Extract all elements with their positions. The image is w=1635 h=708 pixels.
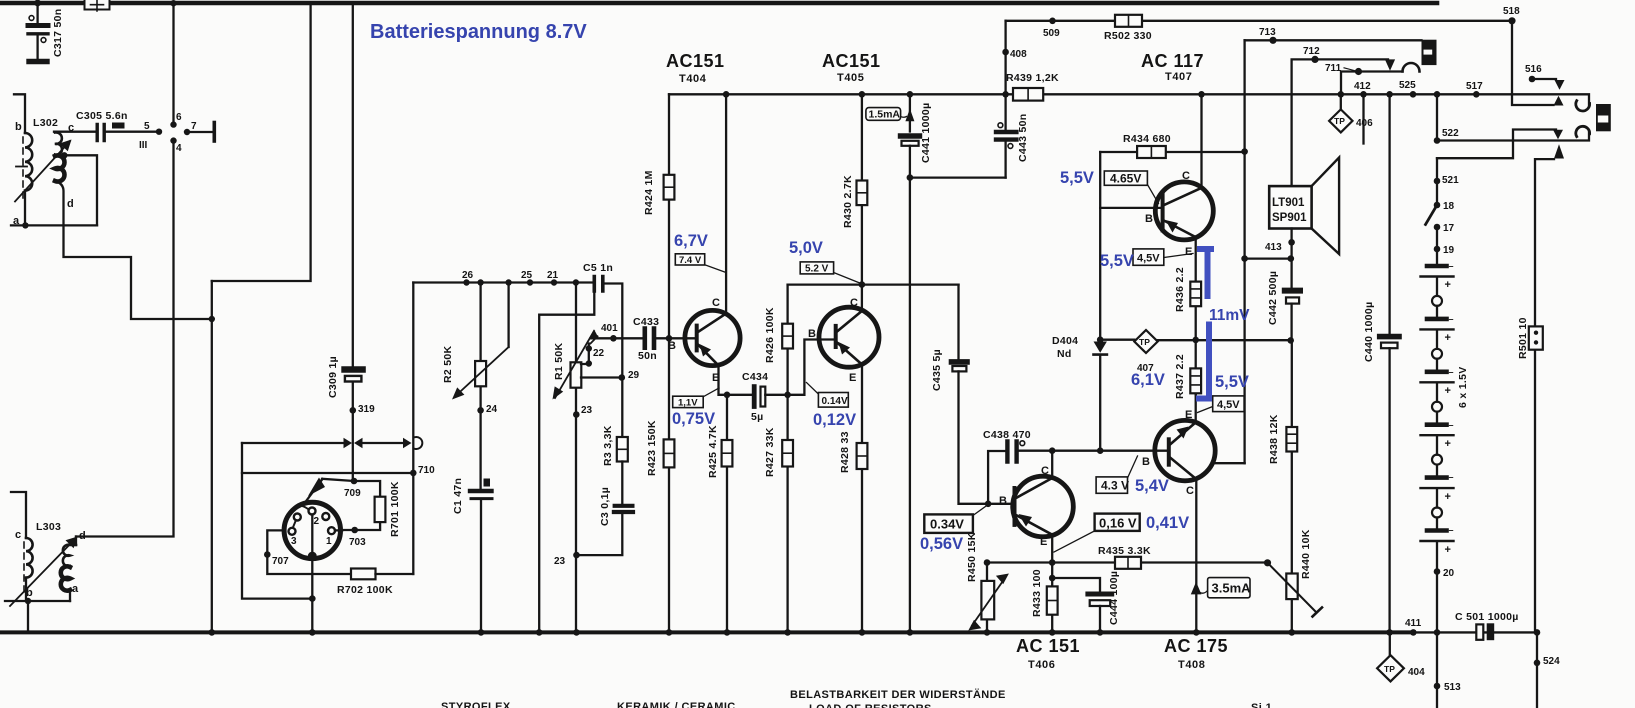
svg-text:c: c — [15, 529, 21, 541]
wire: T408 emitter up to R437 — [1195, 394, 1197, 423]
svg-text:C: C — [1186, 485, 1194, 497]
svg-text:5,5V: 5,5V — [1215, 373, 1249, 391]
wire: 518 vertical to jack contact — [1512, 21, 1554, 105]
svg-text:AC 117: AC 117 — [1141, 51, 1204, 71]
wire: main horizontal rail y=94 — [669, 94, 1589, 106]
contact arrow on R501 arm pointing up — [1554, 144, 1564, 158]
wire: C433 to T404 base — [657, 337, 695, 339]
inductor L302 core dashed line — [22, 137, 24, 200]
svg-text:509: 509 — [1043, 28, 1060, 39]
svg-text:521: 521 — [1442, 175, 1459, 186]
wire: vertical from top bus to pot rail corner — [212, 3, 311, 281]
svg-text:AC151: AC151 — [666, 51, 725, 71]
current arrow 1.5mA on C441 line — [905, 109, 914, 122]
wire: R2 wiper from rail — [507, 283, 509, 348]
DIN pin upper-left circle — [294, 514, 301, 521]
transistor T407 circle — [1155, 182, 1213, 240]
junction dots on emitter rail — [984, 559, 991, 566]
svg-text:C3 0,1µ: C3 0,1µ — [599, 487, 611, 526]
svg-text:517: 517 — [1466, 81, 1483, 92]
capacitor C441 solid plate — [901, 133, 920, 139]
node dot 710 — [410, 470, 417, 477]
transistor T404 emitter diagonal — [698, 345, 719, 366]
node dots on main rail — [723, 91, 730, 98]
contact arrow from 516 arm pointing down — [1555, 80, 1565, 90]
wire: bottom ground bus thin right part — [1414, 631, 1537, 633]
leader line for 5.2V box — [834, 273, 861, 284]
wire: R1 tap 29 line — [581, 376, 622, 378]
wire: C5 right lead down through 29 to R3/C3 — [603, 284, 623, 438]
transistor T408 circle — [1155, 420, 1215, 480]
capacitor C434 solid plate — [752, 387, 757, 407]
DIN connector circle — [284, 502, 340, 558]
resistor R502 box on 518 wire — [1115, 15, 1142, 27]
svg-text:LOAD OF RESISTORS: LOAD OF RESISTORS — [809, 703, 932, 708]
svg-text:B: B — [1142, 456, 1150, 468]
svg-text:711: 711 — [1325, 63, 1342, 74]
capacitor C440 open plate — [1381, 343, 1398, 349]
svg-text:4.3 V: 4.3 V — [1101, 479, 1129, 493]
svg-text:R702 100K: R702 100K — [337, 584, 393, 596]
junction dot on R434 line — [1241, 148, 1248, 155]
capacitor C317 end bar — [29, 59, 47, 64]
svg-text:0,75V: 0,75V — [672, 410, 715, 428]
test point TP406 diamond with stub — [1340, 94, 1342, 109]
value box 0.34V — [924, 514, 973, 533]
capacitor C305 styroflex mark — [112, 123, 125, 129]
node dot 413 — [1288, 239, 1295, 246]
svg-text:319: 319 — [358, 404, 375, 415]
svg-text:19: 19 — [1443, 245, 1455, 256]
power switch lever — [1426, 205, 1438, 225]
svg-text:L302: L302 — [33, 117, 58, 129]
value box 4.3V — [1096, 477, 1127, 493]
svg-text:C435 5µ: C435 5µ — [931, 349, 943, 391]
battery cells — [1427, 266, 1447, 531]
transistor T405 collector diagonal — [837, 311, 862, 332]
svg-text:R450 15K: R450 15K — [966, 532, 978, 582]
resistor R428 box — [857, 443, 868, 469]
wire: L302 primary bottom lead — [24, 191, 26, 226]
svg-text:R433 100: R433 100 — [1031, 569, 1043, 617]
node dots battery and jack column — [1434, 137, 1441, 144]
svg-text:5.2 V: 5.2 V — [805, 264, 829, 275]
wire: T407 base tap — [1100, 207, 1162, 209]
svg-text:24: 24 — [486, 404, 498, 415]
transistor T408 emitter arrow (NPN outward) — [1177, 427, 1189, 439]
wire: screen box top horizontal — [242, 442, 403, 444]
wire: top supply bus — [0, 1, 1437, 6]
svg-text:5: 5 — [144, 121, 150, 132]
leader line for 1.5mA box — [898, 115, 907, 117]
transistor T404 collector diagonal — [698, 314, 726, 333]
svg-text:D404: D404 — [1052, 335, 1078, 347]
inductor L303 primary winding — [26, 538, 33, 578]
svg-text:712: 712 — [1303, 46, 1320, 57]
DIN internal links — [294, 506, 308, 509]
svg-text:R3 3,3K: R3 3,3K — [602, 425, 614, 466]
wire: DIN pin1 to 703 — [335, 529, 342, 531]
DIN pin upper-right circle — [322, 513, 329, 520]
wire: C438 left lead down to base node — [988, 451, 1005, 504]
svg-text:R438 12K: R438 12K — [1268, 414, 1280, 464]
svg-text:+: + — [1445, 279, 1451, 291]
value box 4,5V lower — [1213, 396, 1244, 412]
wire: 713 line to jack plug — [1245, 39, 1422, 41]
wire: L303 d top lead — [75, 537, 77, 546]
leader line for upper 4,5V box — [1164, 254, 1193, 258]
L303 bottom dot — [25, 598, 31, 604]
wire: C309 to node 319 and connector — [352, 382, 354, 478]
svg-text:C317 50n: C317 50n — [52, 8, 64, 57]
capacitor C317 polarity circles — [29, 16, 34, 21]
transistor T405 base bar — [834, 326, 838, 347]
node dot 518 — [1508, 17, 1515, 24]
svg-text:404: 404 — [1408, 667, 1425, 678]
wire: C443 bottom to corner — [1004, 142, 1006, 178]
svg-text:23: 23 — [554, 556, 566, 567]
wire: L303 bottom to ground bus — [27, 601, 29, 632]
wire: C5 bypass path — [539, 291, 594, 632]
capacitor C442 solid plate — [1285, 288, 1300, 294]
junction dot on 5.2V line — [859, 281, 866, 288]
node dot 509 — [1049, 18, 1056, 25]
svg-text:C442 500µ: C442 500µ — [1267, 271, 1279, 325]
switch III node dots 5 6 7 4 — [156, 129, 162, 135]
transistor T404 circle — [685, 310, 740, 365]
transistor T406 emitter arrow — [1019, 514, 1033, 527]
L302 tap dot — [61, 152, 67, 158]
svg-text:7: 7 — [191, 121, 197, 132]
svg-text:518: 518 — [1503, 6, 1520, 17]
junction dot DIN bottom — [309, 595, 316, 602]
capacitor C435 open plate — [952, 366, 966, 371]
node dots on top bus — [34, 0, 41, 6]
inductor L303 core dashed line — [23, 542, 25, 595]
contact arrow on 712 line — [1385, 59, 1395, 70]
wire: L303 secondary bottom lead — [69, 590, 71, 601]
wire: C1 bottom to ground bus — [480, 501, 482, 633]
potentiometer R1 box — [571, 362, 582, 387]
svg-text:4,5V: 4,5V — [1217, 399, 1240, 411]
wire: R438 R440 column — [1291, 341, 1293, 632]
DIN connector pin2 arrow wire — [307, 479, 323, 501]
svg-text:LT901: LT901 — [1272, 197, 1305, 209]
capacitor C309 open plate — [345, 376, 362, 382]
svg-text:709: 709 — [344, 488, 361, 499]
value box 1,1V — [673, 396, 704, 407]
wire: 22 link — [581, 344, 589, 365]
wire: battery arm zigzag to jack contact — [1437, 130, 1556, 159]
wire: bottom ground bus (thick part) — [0, 630, 1414, 634]
svg-text:4,5V: 4,5V — [1137, 253, 1160, 265]
svg-text:413: 413 — [1265, 242, 1282, 253]
svg-text:C: C — [850, 297, 858, 309]
capacitor C1 plates — [470, 489, 492, 493]
transistor T404 emitter arrow — [700, 344, 712, 357]
svg-text:E: E — [1185, 246, 1192, 258]
junction dots on T408 base line — [1049, 447, 1056, 454]
wire: R433 column — [1051, 563, 1053, 633]
svg-text:0.14V: 0.14V — [822, 396, 848, 407]
wire: T407 collector up to rail — [1200, 94, 1202, 188]
wire: TP407 feedback line — [1100, 339, 1291, 342]
svg-text:R2 50K: R2 50K — [442, 345, 454, 383]
DIN connector pin2 arrow — [308, 478, 325, 497]
capacitor C433 plates — [645, 329, 654, 348]
leader line for 711 label — [1344, 68, 1356, 71]
svg-text:d: d — [67, 198, 74, 210]
svg-text:21: 21 — [547, 270, 559, 281]
svg-text:R435 3.3K: R435 3.3K — [1098, 545, 1151, 557]
svg-text:11mV: 11mV — [1209, 307, 1250, 324]
svg-text:AC151: AC151 — [822, 51, 881, 71]
wire: C435 column — [957, 285, 959, 359]
svg-text:1.5mA: 1.5mA — [869, 109, 901, 121]
junction dot C441 link — [907, 174, 914, 181]
wire: switch III vertical from bus to contact 6 — [172, 3, 174, 125]
capacitor C501 open plate — [1476, 624, 1483, 639]
svg-text:R427 33K: R427 33K — [764, 427, 776, 477]
earphone jack plug black square — [1596, 104, 1611, 131]
wire: D404 column — [1099, 152, 1101, 451]
capacitor C1 styroflex mark — [484, 479, 491, 487]
svg-text:C1 47n: C1 47n — [452, 478, 464, 514]
svg-text:C433: C433 — [633, 316, 659, 328]
transistor T407 emitter arrow — [1166, 220, 1179, 233]
wire: 524 column below bus — [1536, 632, 1538, 708]
svg-text:R502 330: R502 330 — [1104, 30, 1152, 42]
junction dots on TP407 line — [1097, 336, 1104, 343]
svg-text:E: E — [849, 372, 856, 384]
svg-text:29: 29 — [628, 370, 640, 381]
svg-text:5,4V: 5,4V — [1135, 477, 1169, 495]
wire: 712 line with speaker column — [1292, 59, 1388, 186]
wire: L302 bottom a line — [11, 224, 97, 226]
wire: C441/C443 link horizontal — [910, 176, 1006, 178]
value box 0.14V — [818, 393, 848, 408]
capacitor C438 polarity circle — [1020, 441, 1025, 446]
wire: left stub into L302 b — [14, 94, 25, 133]
wire: DIN center pin down to ground bus — [311, 515, 313, 633]
svg-text:C438 470: C438 470 — [983, 429, 1031, 441]
svg-text:0,12V: 0,12V — [813, 411, 856, 429]
svg-text:7.4 V: 7.4 V — [679, 255, 702, 266]
wire: 412 stub — [1362, 94, 1364, 143]
wire: L302 c terminal to C305 — [54, 131, 95, 133]
svg-text:B: B — [668, 340, 676, 352]
node dots on pot rail — [463, 279, 469, 285]
resistor R702 box — [351, 569, 376, 580]
svg-text:Si 1: Si 1 — [1251, 702, 1272, 708]
wire: 401 line to C433 — [591, 337, 643, 339]
leader line for 0.14V box — [807, 383, 819, 395]
svg-text:3.5mA: 3.5mA — [1212, 581, 1252, 596]
resistor R430 box — [857, 181, 868, 206]
transistor T407 emitter diagonal — [1164, 221, 1196, 238]
svg-text:AC 151: AC 151 — [1016, 636, 1080, 656]
svg-text:25: 25 — [521, 270, 533, 281]
svg-text:R439 1,2K: R439 1,2K — [1006, 72, 1059, 84]
node dots 23 — [573, 411, 580, 418]
resistor R425 box — [722, 440, 733, 467]
svg-text:–: – — [1449, 367, 1454, 377]
svg-text:BELASTBARKEIT DER WIDERSTÄND: BELASTBARKEIT DER WIDERSTÄNDE — [790, 688, 1006, 701]
svg-text:C: C — [1041, 465, 1049, 477]
wire: R702 right lead — [376, 573, 414, 575]
leader line for 7.4V box — [704, 265, 726, 273]
wire: C443 column from 518 wire — [1004, 21, 1006, 130]
svg-text:R436 2.2: R436 2.2 — [1174, 267, 1186, 312]
svg-text:522: 522 — [1442, 128, 1459, 139]
svg-text:E: E — [712, 372, 719, 384]
DIN pin 1 circle — [328, 527, 335, 534]
svg-text:C443 50n: C443 50n — [1017, 113, 1029, 162]
earphone jack arc top — [1576, 101, 1590, 111]
wire: T406 collector up to C438 line — [1051, 451, 1053, 478]
svg-text:5,5V: 5,5V — [1100, 252, 1134, 270]
wire: T407 emitter column through R436 R437 — [1195, 237, 1197, 394]
resistor R433 box — [1047, 586, 1058, 614]
svg-text:5,0V: 5,0V — [789, 239, 823, 257]
svg-text:23: 23 — [581, 405, 593, 416]
svg-text:516: 516 — [1525, 64, 1542, 75]
wire: R424/R423 column from rail corner to ground bus — [668, 94, 670, 632]
wire: 710 column from pot rail down to R702 — [412, 283, 414, 575]
svg-text:524: 524 — [1543, 656, 1560, 667]
svg-text:406: 406 — [1356, 118, 1373, 129]
svg-text:d: d — [79, 530, 86, 542]
test point TP407 diamond — [1134, 330, 1157, 353]
svg-text:0,16 V: 0,16 V — [1099, 516, 1137, 531]
svg-text:R501 10: R501 10 — [1517, 317, 1529, 359]
jack arc top — [1403, 63, 1420, 71]
wire: battery column 521 to 18 — [1436, 158, 1438, 205]
svg-text:C: C — [712, 297, 720, 309]
DIN pin 2 circle — [309, 508, 316, 515]
capacitor C501 solid plate — [1487, 623, 1495, 640]
capacitor C5 plates — [594, 277, 603, 291]
junction dot T406 base — [985, 501, 992, 508]
svg-text:R425 4.7K: R425 4.7K — [707, 425, 719, 478]
capacitor C443 plates — [996, 130, 1016, 134]
svg-text:SP901: SP901 — [1272, 212, 1307, 224]
svg-text:Batteriespannung 8.7V: Batteriespannung 8.7V — [370, 21, 587, 43]
svg-text:C441 1000µ: C441 1000µ — [920, 103, 932, 163]
svg-text:703: 703 — [349, 537, 366, 548]
svg-text:T406: T406 — [1028, 659, 1055, 671]
svg-text:–: – — [1449, 525, 1454, 535]
svg-text:411: 411 — [1405, 618, 1422, 629]
wiper contact triangle at 401 — [590, 329, 599, 338]
wire: battery column top from rail to 522 — [1436, 94, 1438, 140]
svg-text:R428 33: R428 33 — [839, 431, 851, 473]
wire: T406 emitter down to emitter rail — [1051, 535, 1053, 563]
leader line for 4.65V box — [1147, 185, 1158, 204]
L302 a dot — [22, 222, 28, 228]
capacitor C3 plates — [615, 504, 633, 508]
svg-text:5µ: 5µ — [751, 411, 764, 423]
wire: C438 right line to T408 base — [1019, 450, 1167, 452]
potentiometer R450 box — [981, 581, 994, 620]
battery minus signs — [1449, 261, 1454, 535]
capacitor C441 open plate — [902, 141, 919, 146]
svg-text:a: a — [72, 583, 79, 595]
wire: 522 line to earphone jack — [1437, 132, 1589, 141]
svg-text:0.34V: 0.34V — [930, 517, 964, 532]
capacitor C305 plates — [97, 125, 104, 141]
wire: R1 column from rail through pot — [575, 283, 577, 633]
node dot 319 — [350, 407, 357, 414]
wire: L303 tuning arrow — [10, 538, 76, 606]
svg-text:401: 401 — [601, 323, 618, 334]
blue bracket bar upper — [1197, 249, 1214, 299]
junction dot T404 base — [666, 335, 673, 342]
wire: 709 line — [322, 479, 380, 497]
transistor T404 base bar — [695, 326, 699, 351]
wire: DIN pin3 to 707 and R702 — [267, 530, 351, 574]
junction dots on C434 line — [724, 392, 731, 399]
wire: C441 column from rail — [909, 94, 911, 131]
wire: switch III contact 7 to bar — [187, 131, 212, 133]
svg-text:AC 175: AC 175 — [1164, 636, 1228, 656]
svg-text:408: 408 — [1010, 49, 1027, 60]
svg-text:707: 707 — [272, 556, 289, 567]
svg-text:1: 1 — [326, 536, 332, 547]
svg-text:C: C — [1182, 170, 1190, 182]
svg-text:26: 26 — [462, 270, 474, 281]
wire: C305 to switch contact 5 — [106, 131, 159, 133]
svg-text:17: 17 — [1443, 223, 1455, 234]
value box 1.5mA rounded — [866, 108, 901, 121]
svg-text:C434: C434 — [742, 371, 768, 383]
capacitor C309 solid plate — [345, 366, 363, 372]
svg-text:3: 3 — [291, 536, 297, 547]
transistor T406 collector diagonal — [1016, 478, 1052, 498]
svg-text:L303: L303 — [36, 521, 61, 533]
svg-text:T407: T407 — [1165, 71, 1192, 83]
node dot 712 — [1311, 56, 1318, 63]
transistor T408 collector diagonal — [1170, 458, 1197, 480]
wire: R501 arm corner — [1535, 159, 1554, 632]
svg-text:22: 22 — [593, 348, 605, 359]
node dot 713 — [1269, 37, 1276, 44]
wire: 710 horizontal line — [242, 472, 413, 474]
wire: L302 tap to right — [64, 155, 97, 225]
wire: C440 column — [1388, 94, 1390, 333]
wire: R701 bottom to 703 line — [342, 522, 380, 530]
potentiometer R1 wiper arrow — [555, 331, 594, 398]
transistor T406 circle — [1013, 476, 1074, 537]
leader line for 0,16V box — [1054, 531, 1095, 552]
svg-text:6,1V: 6,1V — [1131, 371, 1165, 389]
leader line for lower 4,5V box — [1198, 407, 1213, 413]
svg-text:R440 10K: R440 10K — [1300, 529, 1312, 579]
connector symbol on 710 column (triangle and arc) — [403, 438, 412, 448]
svg-text:2: 2 — [314, 516, 320, 527]
wire: 5.2V collector line to C435 corner — [788, 283, 959, 285]
svg-text:18: 18 — [1443, 201, 1455, 212]
transistor T406 base bar — [1013, 488, 1017, 525]
resistor R439 box on rail — [1013, 88, 1043, 101]
leader line for 1,1V box — [703, 388, 719, 397]
wire: 711 line — [1341, 72, 1403, 95]
wire: T405 emitter column through R428 — [861, 365, 863, 633]
wire: 518 battery line — [1006, 20, 1512, 22]
wire: L302 d lead going down and right — [56, 181, 212, 319]
svg-text:C305 5.6n: C305 5.6n — [76, 110, 128, 122]
svg-text:a: a — [13, 215, 20, 227]
